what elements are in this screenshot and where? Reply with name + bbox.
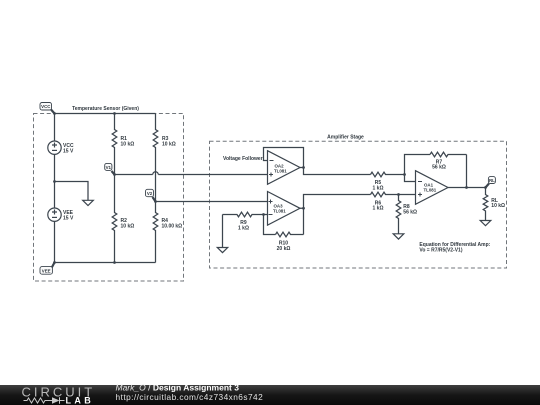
resistor R3 xyxy=(153,114,158,202)
temperature sensor enclosure (dashed box) xyxy=(34,114,184,282)
svg-text:OA2: OA2 xyxy=(275,163,285,168)
wire: OA1 feedback riser to R7 xyxy=(405,155,431,175)
wire: OA3 feedback lower loop to R10 xyxy=(264,215,276,235)
footer bar xyxy=(0,385,540,405)
svg-text:1 kΩ: 1 kΩ xyxy=(373,206,384,212)
svg-text:VCC: VCC xyxy=(41,104,51,109)
voltage source VCC 15 V xyxy=(48,141,61,154)
svg-text:10 kΩ: 10 kΩ xyxy=(162,141,176,147)
ground (R8) xyxy=(393,234,404,239)
svg-text:1 kΩ: 1 kΩ xyxy=(373,185,384,191)
node RL label xyxy=(486,177,496,188)
svg-text:Voltage Follower: Voltage Follower xyxy=(223,156,263,162)
svg-text:20 kΩ: 20 kΩ xyxy=(277,246,291,252)
svg-text:Temperature Sensor (Given): Temperature Sensor (Given) xyxy=(72,106,139,112)
svg-text:15 V: 15 V xyxy=(63,148,74,154)
svg-text:RL: RL xyxy=(489,178,495,183)
wire: left supply column xyxy=(54,114,56,263)
wire: R9 to ground xyxy=(222,215,224,248)
resistor R8 xyxy=(396,195,401,234)
svg-text:LAB: LAB xyxy=(66,396,95,405)
resistor R10 xyxy=(276,232,304,237)
wire: R10 up to OA3 output xyxy=(303,208,305,234)
svg-text:10 kΩ: 10 kΩ xyxy=(121,223,135,229)
label: Temperature Sensor (Given) xyxy=(72,106,139,112)
svg-text:OA1: OA1 xyxy=(424,182,434,187)
svg-text:V1: V1 xyxy=(106,165,112,170)
node V1 label xyxy=(105,163,115,174)
amplifier stage enclosure (dashed box) xyxy=(210,141,507,268)
svg-text:1 kΩ: 1 kΩ xyxy=(238,225,249,231)
svg-text:Vo = R7/R5(V2-V1): Vo = R7/R5(V2-V1) xyxy=(419,248,462,254)
svg-text:10 kΩ: 10 kΩ xyxy=(121,141,135,147)
value label R8 56 kΩ xyxy=(403,204,417,215)
footer title: Mark_O / Design Assignment 3 xyxy=(116,383,240,393)
value label R6 1 kΩ xyxy=(373,200,384,211)
value label R7 56 kΩ xyxy=(432,159,446,170)
value label VEE 15 V xyxy=(63,210,74,221)
footer logo LAB xyxy=(66,396,95,405)
resistor R9 xyxy=(223,212,268,217)
value label R3 10 kΩ xyxy=(162,136,176,147)
resistor R4 xyxy=(153,202,158,263)
wire: OA1 output to load xyxy=(448,187,486,189)
value label VCC 15 V xyxy=(63,143,74,154)
node VCC label xyxy=(40,103,55,114)
ground (sensor) xyxy=(83,200,94,205)
resistor R6 xyxy=(371,192,416,197)
note: equation for differential amp xyxy=(419,242,490,253)
value label R9 1 kΩ xyxy=(238,220,249,231)
node VEE label xyxy=(40,263,55,275)
value label R10 20 kΩ xyxy=(277,240,291,251)
value label R4 10.00 kΩ xyxy=(162,218,183,229)
svg-text:15 V: 15 V xyxy=(63,215,74,221)
value label R5 1 kΩ xyxy=(373,180,384,191)
voltage source VEE 15 V xyxy=(48,208,61,221)
label: Amplifier Stage xyxy=(327,135,364,141)
footer logo CIRCUIT xyxy=(22,384,96,399)
wire: OA2 output to R5 xyxy=(300,168,371,175)
wire: bottom VEE rail xyxy=(55,262,156,264)
svg-text:TL081: TL081 xyxy=(274,169,287,174)
value label RL 10 kΩ xyxy=(491,198,505,209)
ground (R9) xyxy=(217,248,227,253)
resistor R2 xyxy=(112,175,117,263)
node V2 label xyxy=(146,189,156,201)
value label R1 10 kΩ xyxy=(121,136,135,147)
value label R2 10 kΩ xyxy=(121,218,135,229)
svg-text:http://circuitlab.com/c4z734xn: http://circuitlab.com/c4z734xn6s742 xyxy=(116,392,264,402)
wire: OA2 feedback loop (unity gain) xyxy=(264,148,304,168)
wire: R7 down to OA1 output node xyxy=(466,155,468,188)
wire: VCC top rail xyxy=(55,113,156,115)
wire: node V1 to OA2 non-inverting input (with crossover hop) xyxy=(115,172,268,175)
op-amp OA1 TL081 xyxy=(416,171,449,205)
svg-text:TL081: TL081 xyxy=(424,188,437,193)
ground (RL) xyxy=(480,221,491,226)
resistor R1 xyxy=(112,114,117,175)
svg-text:TL081: TL081 xyxy=(273,209,286,214)
resistor R5 xyxy=(371,172,405,177)
op-amp OA3 TL081 xyxy=(268,192,301,226)
footer logo squiggle (resistor + diode) xyxy=(24,397,65,404)
svg-text:56 kΩ: 56 kΩ xyxy=(432,165,446,171)
svg-text:OA3: OA3 xyxy=(274,203,284,208)
resistor RL xyxy=(483,188,488,221)
svg-text:56 kΩ: 56 kΩ xyxy=(403,209,417,215)
wire: node V2 to OA3 non-inverting input xyxy=(156,201,268,203)
footer url xyxy=(116,392,264,402)
svg-text:10.00 kΩ: 10.00 kΩ xyxy=(162,223,183,229)
wire: OA3 output to R6 xyxy=(300,195,371,209)
wire: ground branch from supply midpoint xyxy=(55,182,89,201)
svg-text:V2: V2 xyxy=(147,191,153,196)
svg-text:Amplifier Stage: Amplifier Stage xyxy=(327,135,364,141)
svg-text:10 kΩ: 10 kΩ xyxy=(491,203,505,209)
resistor R7 xyxy=(430,152,467,157)
wire: R5 to OA1 inverting input xyxy=(405,175,416,182)
svg-text:VEE: VEE xyxy=(42,268,51,273)
label: Voltage Follower xyxy=(223,156,263,162)
op-amp OA2 TL081 xyxy=(268,151,301,185)
